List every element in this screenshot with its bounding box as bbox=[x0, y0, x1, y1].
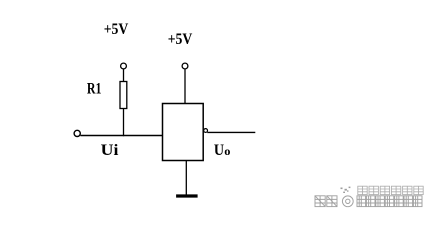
watermark logo speckles (line 1) bbox=[341, 187, 351, 193]
power terminal (right +5V) bbox=[182, 63, 188, 69]
wire: IC bottom to ground bbox=[185, 161, 187, 195]
power terminal (left +5V) bbox=[121, 63, 127, 69]
resistor R1 bbox=[120, 82, 127, 109]
output bubble on IC right edge bbox=[204, 129, 208, 133]
svg-text:+5V: +5V bbox=[104, 21, 129, 38]
wire: output bubble to open end bbox=[207, 131, 255, 133]
svg-text:R1: R1 bbox=[87, 80, 102, 97]
wire: left supply terminal to resistor R1 top bbox=[123, 69, 125, 81]
svg-text:+5V: +5V bbox=[168, 31, 193, 48]
wire: input terminal to IC left edge bbox=[80, 135, 162, 137]
wire: resistor R1 bottom to input line junction bbox=[123, 109, 125, 137]
IC U1 (inverter box) bbox=[163, 104, 204, 161]
watermark text line 2 (gray CJK-style pseudo-glyphs) bbox=[315, 196, 422, 207]
watermark text line 1 (gray CJK-style pseudo-glyphs) bbox=[358, 186, 423, 194]
svg-text:o: o bbox=[224, 144, 230, 158]
svg-text:U: U bbox=[214, 142, 225, 159]
wire: right supply terminal to IC top bbox=[184, 69, 186, 103]
ground bbox=[176, 194, 198, 197]
svg-text:Ui: Ui bbox=[101, 142, 119, 159]
input terminal Ui bbox=[74, 130, 80, 136]
